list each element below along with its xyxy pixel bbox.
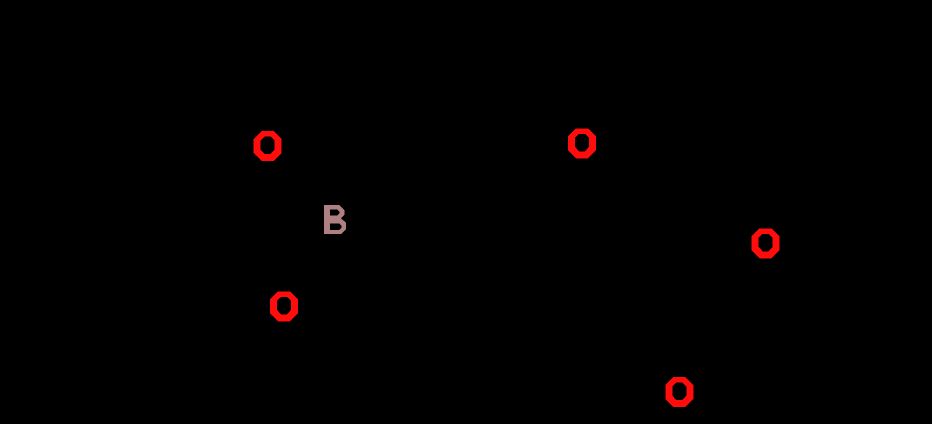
wire bond ester C	[650, 200, 690, 330]
wire bond C4-C5	[196, 196, 210, 280]
wire bond C=O carbonyl	[681, 330, 690, 376]
atom O1: dioxaborolane top oxygen	[254, 131, 282, 161]
wire bond C4-O1 (dioxaborolane)	[196, 159, 253, 196]
atom O4: ester oxygen	[752, 228, 780, 258]
wire bond furan ring right	[438, 150, 650, 268]
wire bond C-O ester	[700, 252, 752, 320]
wire bond O-CH3 methyl	[779, 243, 850, 280]
atom B: boron	[324, 205, 346, 234]
atom O2: dioxaborolane bottom oxygen	[270, 291, 298, 321]
carbon skeleton bonds (black on black, invisible as in source)	[196, 150, 850, 376]
atom O3: furan ring oxygen	[568, 128, 596, 158]
wire bond O2-C5	[210, 280, 271, 310]
wire bond furan ring left	[438, 150, 568, 268]
atom O5: carbonyl oxygen	[665, 377, 693, 407]
wire bond B-furan C	[346, 226, 438, 268]
wire bond O1-B	[280, 154, 324, 206]
wire bond B-O2	[296, 234, 330, 292]
